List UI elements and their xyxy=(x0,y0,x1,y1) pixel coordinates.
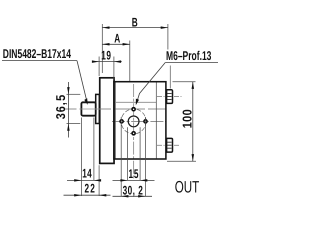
leader underline M6 xyxy=(165,62,218,64)
svg-text:15: 15 xyxy=(128,167,139,181)
extension line 19 left xyxy=(98,56,100,76)
extension line 100 bottom xyxy=(167,160,196,162)
svg-text:B: B xyxy=(132,16,138,30)
bottom port boss xyxy=(167,138,173,152)
svg-text:DIN5482–B17x14: DIN5482–B17x14 xyxy=(3,46,72,61)
body internal front line xyxy=(114,82,116,159)
dimension 14 xyxy=(67,179,101,181)
svg-text:36,5: 36,5 xyxy=(53,94,68,119)
top port boss xyxy=(167,90,173,104)
M6 hole right xyxy=(144,120,147,123)
svg-text:OUT: OUT xyxy=(175,177,200,196)
bolt circle dashed xyxy=(121,109,146,134)
splined shaft end xyxy=(81,102,95,115)
M6 hole top xyxy=(132,108,135,111)
flange plate xyxy=(100,78,114,164)
top port thread lines xyxy=(167,94,172,100)
rear cover split line xyxy=(155,82,157,159)
extension line A right xyxy=(129,41,131,82)
extension line 30,2 left hole xyxy=(120,117,122,196)
port pattern horizontal centerline xyxy=(112,121,167,123)
leader underline DIN xyxy=(2,60,77,62)
svg-text:30,2: 30,2 xyxy=(123,183,144,197)
extension line 22 right xyxy=(98,165,100,196)
M6 hole bottom xyxy=(132,132,135,135)
svg-text:A: A xyxy=(114,32,120,46)
top port axis xyxy=(157,95,182,97)
svg-text:M6–Prof.13: M6–Prof.13 xyxy=(166,48,211,63)
extension line 19 right xyxy=(113,57,115,80)
extension line A B left xyxy=(101,24,103,73)
port pattern vertical centerline xyxy=(133,84,135,180)
pump body xyxy=(114,82,166,159)
dimension 22 xyxy=(63,194,110,196)
svg-text:100: 100 xyxy=(179,109,194,128)
M6 hole left xyxy=(120,120,123,123)
dimension 36,5 xyxy=(67,82,69,137)
extension line 36,5 bottom xyxy=(66,123,80,125)
extension line 15 left xyxy=(127,127,129,180)
bottom port thread lines xyxy=(167,142,172,148)
shaft centerline inside spline xyxy=(80,108,101,110)
extension line 14 22 left xyxy=(80,117,82,196)
leader DIN to shaft xyxy=(77,61,87,102)
dimension A xyxy=(102,43,129,45)
dimension 30,2 xyxy=(112,195,152,197)
top port vertical centerline xyxy=(169,66,171,89)
extension line 14 right xyxy=(93,117,95,180)
svg-text:22: 22 xyxy=(84,182,96,196)
extension line 36,5 top xyxy=(67,93,81,95)
leader M6 to hole xyxy=(137,63,166,104)
dimension 15 xyxy=(112,179,154,181)
center port circle xyxy=(128,116,139,127)
svg-text:19: 19 xyxy=(101,49,111,63)
bottom port axis xyxy=(157,144,181,146)
main shaft centerline xyxy=(64,108,166,110)
extension line B right xyxy=(167,24,169,50)
dimension B xyxy=(102,27,168,29)
dimension 19 xyxy=(92,61,122,63)
body internal top gear line xyxy=(114,101,156,103)
dimension 100 xyxy=(192,82,194,162)
extension line 100 top xyxy=(173,81,196,83)
extension line 15 right xyxy=(139,127,141,180)
svg-text:14: 14 xyxy=(82,167,92,181)
pilot boss xyxy=(96,94,100,123)
extension line 30,2 right hole xyxy=(144,117,146,196)
